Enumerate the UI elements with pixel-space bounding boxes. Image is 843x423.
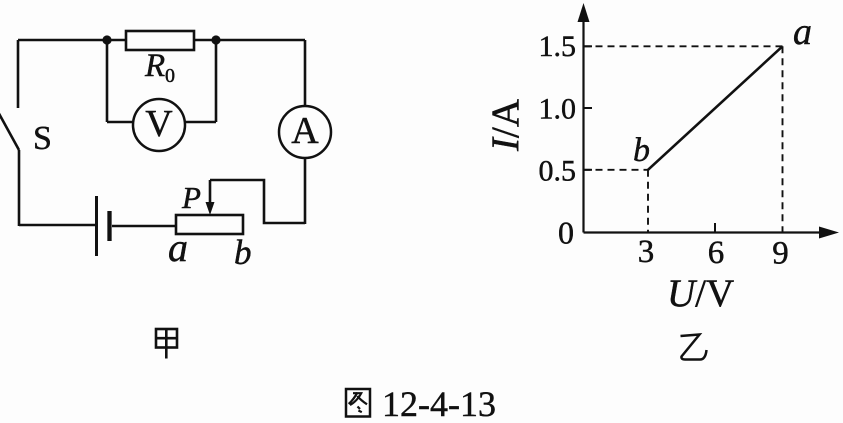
svg-text:R: R — [144, 48, 165, 84]
wire battery to rheostat — [112, 225, 177, 228]
svg-text:V: V — [145, 103, 173, 145]
svg-text:1.0: 1.0 — [539, 93, 577, 126]
tick y 1.5 — [584, 45, 593, 47]
ammeter A — [279, 106, 331, 158]
wire slider to ammeter — [210, 180, 305, 223]
svg-text:9: 9 — [772, 236, 789, 272]
battery short plate — [107, 211, 111, 241]
wire ammeter bottom — [304, 158, 307, 224]
graph y-axis I — [578, 3, 590, 233]
svg-text:b: b — [234, 233, 252, 272]
svg-text:P: P — [181, 180, 201, 215]
svg-text:0: 0 — [558, 215, 574, 251]
svg-text:a: a — [793, 11, 812, 53]
node left junction — [102, 35, 111, 44]
svg-text:b: b — [633, 132, 650, 169]
wire voltmeter right — [184, 40, 216, 122]
svg-text:1.5: 1.5 — [539, 30, 577, 63]
tick y 1.0 — [584, 107, 593, 109]
graph x-axis U — [584, 227, 840, 239]
svg-text:3: 3 — [638, 234, 655, 270]
battery long plate — [95, 196, 98, 256]
svg-text:0: 0 — [165, 65, 175, 87]
dashed line y=1.5 to point a — [584, 45, 783, 47]
dashed line x=3 below point b — [647, 170, 649, 233]
wire left vertical upper — [17, 40, 20, 108]
svg-text:A: A — [291, 110, 319, 152]
rheostat slider arrow P — [206, 180, 215, 215]
dashed line x=9 below point a — [782, 46, 784, 232]
svg-text:12-4-13: 12-4-13 — [382, 384, 496, 423]
svg-text:U/V: U/V — [667, 272, 734, 315]
axis label I/A — [484, 99, 527, 152]
caption jia (Chinese char for circuit) — [156, 329, 177, 359]
svg-text:6: 6 — [708, 235, 725, 271]
resistor label R0 — [144, 48, 175, 87]
rheostat body — [176, 215, 243, 234]
tick x 6 — [714, 223, 716, 233]
caption yi (Chinese char for graph) — [681, 335, 707, 360]
wire ammeter top — [304, 40, 307, 106]
svg-text:a: a — [168, 225, 188, 270]
wire bottom to battery — [19, 224, 96, 227]
wire top horizontal — [18, 39, 305, 42]
node right junction — [211, 35, 220, 44]
resistor R0 — [126, 31, 194, 50]
voltmeter V — [133, 99, 185, 151]
caption figure number: tu character — [346, 389, 370, 417]
tick y 0.5 — [584, 169, 593, 171]
svg-text:I/A: I/A — [484, 99, 527, 152]
switch S blade — [0, 110, 19, 150]
dashed line y=0.5 to point b — [584, 169, 649, 171]
graph line b to a — [648, 46, 783, 170]
wire left vertical lower — [18, 150, 21, 226]
svg-text:S: S — [33, 120, 52, 157]
wire voltmeter left — [107, 40, 134, 122]
svg-text:0.5: 0.5 — [539, 155, 577, 188]
